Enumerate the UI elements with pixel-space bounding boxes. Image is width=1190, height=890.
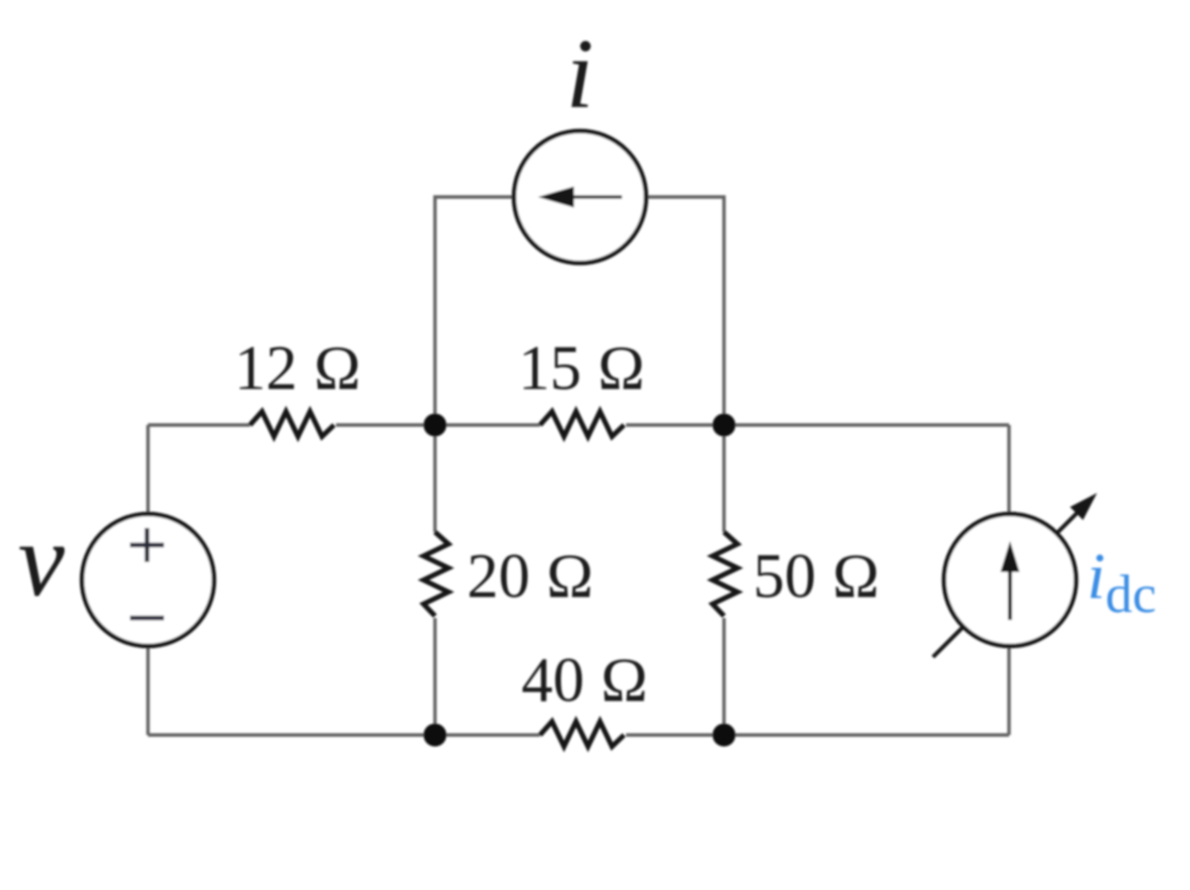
svg-text:50 Ω: 50 Ω: [753, 541, 880, 611]
svg-text:12 Ω: 12 Ω: [234, 333, 361, 403]
svg-text:idc: idc: [1087, 540, 1156, 624]
svg-text:v: v: [18, 501, 65, 618]
svg-text:15 Ω: 15 Ω: [518, 333, 645, 403]
svg-text:i: i: [566, 18, 594, 129]
svg-text:20 Ω: 20 Ω: [467, 541, 594, 611]
svg-text:40 Ω: 40 Ω: [521, 645, 648, 715]
